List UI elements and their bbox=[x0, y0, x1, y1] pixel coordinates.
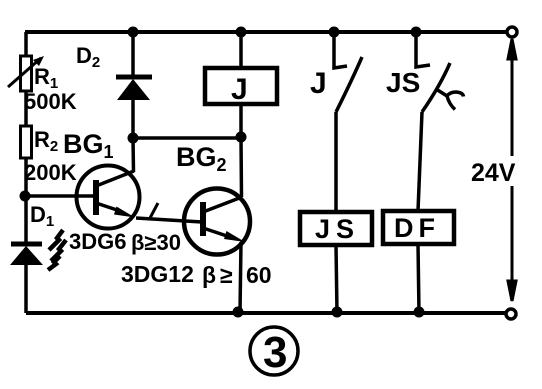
junction dot top rail / J contact branch bbox=[329, 27, 340, 38]
wire left rail segment top (top rail to R1) bbox=[24, 32, 28, 57]
svg-text:3: 3 bbox=[263, 328, 287, 377]
resistor R1 (adjustable, with arrow) bbox=[8, 56, 44, 91]
wire BG1 emitter to BG2 base bbox=[136, 218, 202, 222]
junction dot top rail / J coil branch bbox=[236, 27, 247, 38]
transistor BG2 bbox=[184, 189, 250, 255]
label D2 bbox=[76, 43, 100, 71]
figure number circle 3 bbox=[250, 327, 298, 377]
wire D1 to bottom rail bbox=[24, 265, 28, 313]
junction dot top rail / D2 branch bbox=[128, 27, 139, 38]
svg-text:D2: D2 bbox=[76, 43, 100, 71]
wire JS contact to DF coil bbox=[418, 112, 422, 211]
svg-text:DF: DF bbox=[394, 213, 440, 243]
label R2 bbox=[34, 127, 58, 155]
svg-text:R1: R1 bbox=[34, 64, 58, 92]
wire top rail bbox=[25, 30, 507, 34]
relay coil JS bbox=[300, 212, 372, 245]
wire BG1 base lead from node A bbox=[25, 194, 94, 198]
svg-text:β≥30: β≥30 bbox=[131, 230, 181, 255]
svg-text:3DG12: 3DG12 bbox=[121, 261, 194, 287]
wire node B down to BG1 collector bbox=[131, 138, 135, 172]
terminal top right bbox=[507, 27, 517, 37]
resistor R2 bbox=[21, 126, 32, 158]
svg-text:500K: 500K bbox=[24, 89, 77, 114]
label 3DG6 beta>=30 bbox=[69, 229, 181, 255]
node B junction dot (D2 / BG1 collector) bbox=[128, 133, 139, 144]
svg-text:β≥: β≥ bbox=[202, 262, 237, 288]
label J (contact) bbox=[310, 67, 327, 100]
junction dot bottom rail / JS branch bbox=[332, 307, 343, 318]
wire node C to BG2 collector bbox=[239, 138, 243, 197]
transistor BG1 bbox=[77, 166, 140, 229]
svg-text:JS: JS bbox=[386, 67, 420, 98]
24V annotation arrow line bbox=[508, 39, 516, 301]
wire node B to node C (horizontal) bbox=[133, 136, 241, 140]
photodiode D1 bbox=[10, 244, 43, 265]
svg-text:3DG6: 3DG6 bbox=[69, 229, 126, 254]
svg-text:200K: 200K bbox=[24, 160, 77, 185]
svg-text:24V: 24V bbox=[471, 159, 516, 187]
switch contact JS (time-delay contact) bbox=[416, 32, 464, 112]
terminal bottom right bbox=[506, 309, 516, 319]
svg-text:JS: JS bbox=[315, 214, 360, 244]
label BG1 bbox=[63, 129, 114, 162]
label R1 bbox=[34, 64, 58, 92]
wire J coil to node C bbox=[239, 104, 243, 138]
label 24V bbox=[471, 159, 516, 187]
diode D2 bbox=[116, 77, 152, 100]
wire D2 to node B bbox=[131, 100, 135, 138]
svg-text:J: J bbox=[310, 67, 327, 100]
wire top rail to J coil bbox=[239, 32, 243, 67]
wire bottom rail bbox=[26, 311, 505, 315]
svg-text:BG2: BG2 bbox=[176, 142, 227, 175]
wire R1 to R2 bbox=[24, 91, 28, 126]
wire BG2 emitter to bottom rail bbox=[240, 242, 241, 313]
relay coil DF bbox=[383, 211, 454, 244]
stray slash mark between BG1 and BG2 bbox=[150, 203, 158, 218]
relay coil J bbox=[205, 68, 277, 106]
value label 500K bbox=[24, 89, 77, 114]
switch contact J (relay contact) bbox=[334, 32, 362, 112]
wire JS coil to bottom rail bbox=[336, 245, 337, 313]
svg-text:D1: D1 bbox=[30, 202, 54, 230]
value label 200K bbox=[24, 160, 77, 185]
svg-text:R2: R2 bbox=[34, 127, 58, 155]
label JS (contact) bbox=[386, 67, 420, 98]
light arrows on D1 bbox=[48, 230, 66, 270]
node A junction dot (base node) bbox=[20, 191, 31, 202]
junction dot bottom rail / BG2 emitter bbox=[233, 307, 244, 318]
label BG2 bbox=[176, 142, 227, 175]
label D1 bbox=[30, 202, 54, 230]
wire DF coil to bottom rail bbox=[418, 244, 419, 313]
wire J contact to JS coil bbox=[334, 112, 338, 211]
wire top rail to D2 bbox=[131, 32, 135, 76]
node C junction dot (J coil / BG2 collector) bbox=[236, 132, 247, 143]
junction dot top rail / JS contact branch bbox=[411, 27, 422, 38]
junction dot bottom rail / DF branch bbox=[414, 307, 425, 318]
svg-text:J: J bbox=[231, 73, 248, 106]
label 3DG12 beta>=60 bbox=[121, 261, 272, 288]
svg-text:BG1: BG1 bbox=[63, 129, 114, 162]
svg-text:60: 60 bbox=[246, 262, 272, 288]
wire R2 to node A bbox=[24, 158, 28, 243]
